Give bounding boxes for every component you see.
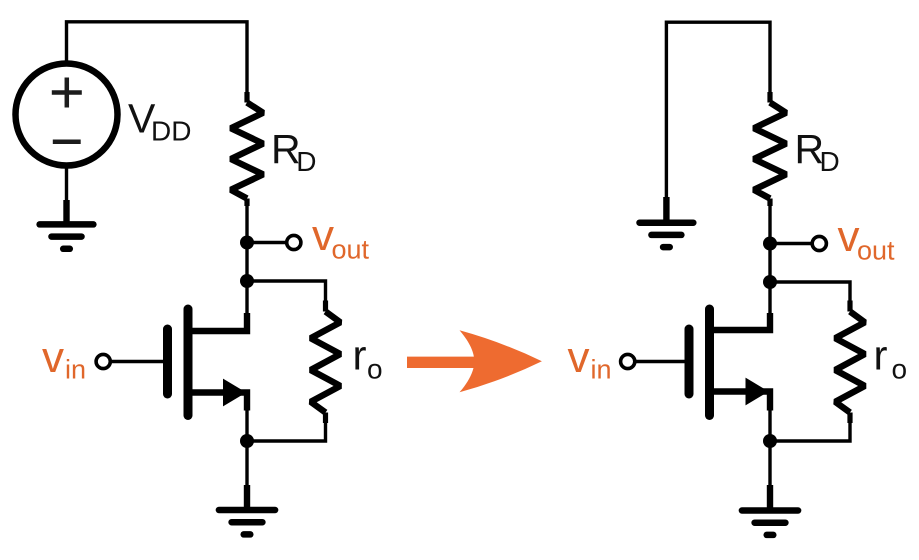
svg-text:o: o bbox=[367, 354, 383, 385]
channel bar bbox=[705, 309, 714, 416]
wire ro bottom to source node bbox=[247, 421, 326, 441]
transistor M1 (right NMOS) bbox=[689, 309, 770, 416]
svg-text:v: v bbox=[568, 333, 590, 382]
node source junction (left) bbox=[240, 434, 254, 448]
terminal vout (right) bbox=[812, 236, 826, 250]
drain lead bbox=[188, 313, 247, 331]
wire node to vout terminal (right) bbox=[770, 242, 813, 245]
svg-text:out: out bbox=[332, 234, 370, 264]
transistor M1 (left NMOS) bbox=[168, 309, 248, 416]
wire transistor source to bottom node (right) bbox=[768, 405, 771, 441]
wire top rail (ground branch to RD) bbox=[666, 22, 770, 198]
wire RD bottom to vout node bbox=[245, 204, 248, 243]
wire gate to vin terminal bbox=[110, 360, 166, 363]
voltage source VDD bbox=[16, 64, 118, 166]
node drain junction (left) bbox=[240, 274, 254, 288]
label ro (right) bbox=[874, 332, 908, 385]
label ro (left) bbox=[353, 332, 383, 385]
resistor ro (left) bbox=[311, 301, 341, 424]
source arrow bbox=[223, 379, 246, 407]
gate bar bbox=[685, 329, 694, 394]
wire transistor source to bottom node bbox=[245, 405, 248, 441]
source lead bbox=[710, 392, 771, 411]
terminal vin (left) bbox=[96, 354, 110, 368]
svg-text:D: D bbox=[296, 146, 316, 177]
wire source bottom to ground bbox=[65, 166, 68, 204]
node drain junction (right) bbox=[763, 275, 777, 289]
node vout (left) bbox=[240, 236, 254, 250]
channel bar bbox=[184, 309, 193, 416]
ground (left bottom) bbox=[219, 485, 275, 534]
resistor ro (right) bbox=[835, 301, 865, 424]
wire vout node to drain node (right) bbox=[768, 244, 771, 283]
wire drain node to ro top bbox=[247, 281, 326, 302]
svg-text:o: o bbox=[892, 354, 908, 385]
wire node to vout terminal bbox=[247, 241, 288, 244]
terminal vout (left) bbox=[287, 235, 301, 249]
svg-text:in: in bbox=[591, 354, 612, 384]
node vout (right) bbox=[763, 237, 777, 251]
source lead bbox=[188, 393, 247, 411]
svg-text:out: out bbox=[857, 235, 895, 265]
svg-text:v: v bbox=[42, 333, 64, 382]
wire top rail (source to RD) bbox=[67, 22, 248, 93]
wire ro bottom to source node (right) bbox=[770, 421, 850, 441]
terminal vin (right) bbox=[621, 354, 635, 368]
label RD (right) bbox=[795, 126, 840, 177]
label vout (right) bbox=[838, 212, 896, 265]
signal transformation arrow bbox=[407, 330, 542, 392]
ground (right bottom) bbox=[742, 485, 798, 535]
resistor RD (left) bbox=[231, 92, 263, 206]
svg-text:r: r bbox=[874, 332, 888, 379]
drain lead bbox=[710, 313, 771, 330]
wire source node to ground (left bottom) bbox=[245, 441, 248, 488]
wire gate to vin terminal (right) bbox=[634, 360, 688, 363]
label vin (left) bbox=[42, 333, 86, 385]
wire RD bottom to vout node (right) bbox=[768, 204, 771, 244]
svg-text:DD: DD bbox=[151, 116, 191, 147]
svg-text:r: r bbox=[353, 332, 367, 379]
label VDD bbox=[128, 96, 191, 147]
ground (right top, replaces VDD) bbox=[640, 197, 694, 247]
svg-text:D: D bbox=[820, 146, 840, 177]
source arrow bbox=[746, 378, 769, 406]
label vout (left) bbox=[312, 211, 370, 264]
wire drain node down to transistor drain (right) bbox=[768, 282, 771, 316]
gate bar bbox=[163, 329, 172, 394]
wire drain node to ro top (right) bbox=[770, 282, 850, 302]
svg-text:in: in bbox=[65, 354, 86, 384]
label vin (right) bbox=[568, 333, 612, 385]
node source junction (right) bbox=[763, 434, 777, 448]
ground (below VDD source) bbox=[40, 200, 94, 249]
wire vout node to drain node bbox=[245, 243, 248, 282]
resistor RD (right) bbox=[754, 92, 786, 206]
label RD bbox=[271, 126, 317, 177]
wire drain node down to transistor drain bbox=[245, 281, 248, 316]
wire source node to ground (right bottom) bbox=[768, 441, 771, 488]
